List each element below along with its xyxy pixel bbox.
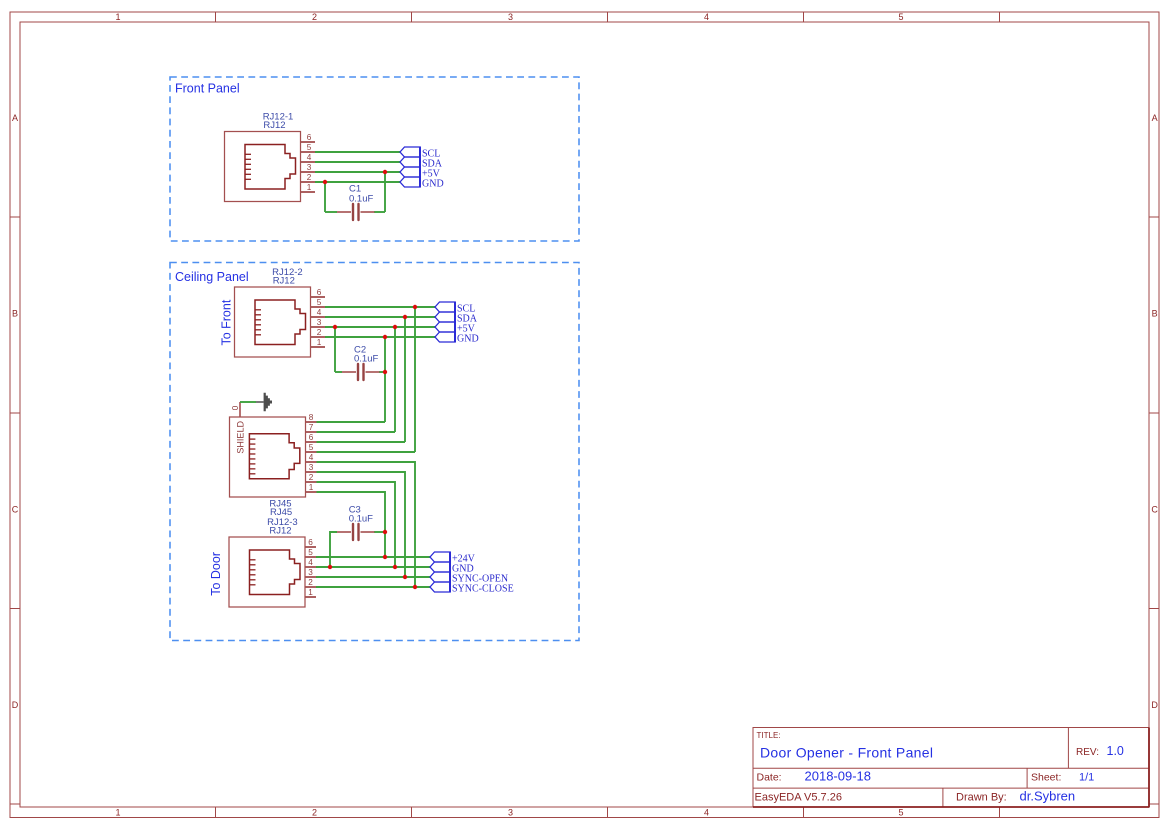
- svg-text:Ceiling Panel: Ceiling Panel: [175, 270, 249, 284]
- wire RJ12-3 pin4 to GND: [316, 566, 430, 568]
- svg-text:1: 1: [115, 12, 120, 22]
- svg-text:GND: GND: [457, 333, 479, 344]
- junction GND lower / C3: [328, 565, 332, 569]
- wire C3 right: [374, 531, 385, 533]
- wire C1 right vertical: [384, 172, 386, 212]
- junction SYNC-OPEN: [403, 575, 407, 579]
- svg-text:0.1uF: 0.1uF: [349, 514, 373, 525]
- svg-text:RJ12: RJ12: [273, 275, 295, 286]
- svg-text:Door Opener - Front Panel: Door Opener - Front Panel: [760, 745, 933, 761]
- capacitor C3 0.1uF: [337, 505, 375, 541]
- svg-text:5: 5: [307, 143, 312, 152]
- svg-text:3: 3: [317, 318, 322, 327]
- wire RJ45 pin8 to GND bus: [317, 421, 386, 423]
- svg-text:0.1uF: 0.1uF: [349, 194, 373, 205]
- wire bus SDA vertical upper: [404, 317, 406, 442]
- net flag GND lower: [430, 562, 474, 575]
- junction C2 right: [383, 370, 387, 374]
- svg-text:3: 3: [309, 463, 314, 472]
- wire RJ12-2 pin2 to GND: [325, 336, 435, 338]
- svg-text:To Door: To Door: [209, 552, 223, 596]
- svg-text:5: 5: [309, 443, 314, 452]
- svg-text:5: 5: [308, 548, 313, 557]
- svg-text:C: C: [1151, 505, 1158, 515]
- svg-text:0: 0: [231, 405, 240, 410]
- svg-text:1: 1: [309, 483, 314, 492]
- svg-text:7: 7: [309, 423, 314, 432]
- svg-text:1: 1: [307, 183, 312, 192]
- connector RJ12-1: [225, 111, 316, 201]
- svg-text:1: 1: [115, 808, 120, 818]
- svg-text:1.0: 1.0: [1107, 744, 1124, 758]
- svg-text:SHIELD: SHIELD: [235, 421, 245, 454]
- svg-text:1: 1: [317, 338, 322, 347]
- svg-text:4: 4: [704, 12, 709, 22]
- net flag GND ceiling: [435, 332, 479, 345]
- svg-text:3: 3: [508, 12, 513, 22]
- wire C1 right horizontal: [374, 211, 385, 213]
- wire RJ45 pin4 to SYNC-CLOSE bus: [317, 462, 416, 587]
- wire RJ12-1 pin4 to SDA: [315, 161, 400, 163]
- junction SCL bus: [413, 305, 417, 309]
- svg-text:TITLE:: TITLE:: [757, 731, 781, 740]
- svg-text:B: B: [1152, 309, 1158, 319]
- wire RJ45 pin2 to GND lower bus: [317, 482, 396, 567]
- net flag SYNC-CLOSE: [430, 582, 514, 595]
- wire RJ45 pin1 to +24V bus: [317, 492, 386, 557]
- wire RJ45 pin5 to SCL bus: [317, 451, 416, 453]
- svg-text:B: B: [12, 309, 18, 319]
- module box Ceiling Panel: [170, 263, 579, 641]
- svg-text:dr.Sybren: dr.Sybren: [1020, 788, 1076, 803]
- net flag +5V: [400, 167, 441, 180]
- svg-text:3: 3: [307, 163, 312, 172]
- wire RJ12-2 pin4 to SDA: [325, 316, 435, 318]
- junction +5V bus: [393, 325, 397, 329]
- connector RJ12-2 To Front: [220, 267, 326, 357]
- net flag GND: [400, 177, 444, 190]
- svg-text:SYNC-CLOSE: SYNC-CLOSE: [452, 583, 514, 594]
- wire RJ12-1 pin2 to GND: [315, 181, 400, 183]
- svg-text:2: 2: [309, 473, 314, 482]
- junction RJ12-1 pin3 / C1: [383, 170, 387, 174]
- junction C3 right: [383, 530, 387, 534]
- svg-text:D: D: [1151, 700, 1158, 710]
- wire bus GND vertical upper: [384, 337, 386, 422]
- svg-text:3: 3: [308, 568, 313, 577]
- connector RJ45 SHIELD: [230, 402, 317, 518]
- svg-text:2: 2: [307, 173, 312, 182]
- svg-text:2: 2: [308, 578, 313, 587]
- junction +24V: [383, 555, 387, 559]
- svg-text:8: 8: [309, 413, 314, 422]
- svg-text:2: 2: [312, 12, 317, 22]
- connector RJ12-3 To Door: [209, 517, 316, 607]
- svg-text:2018-09-18: 2018-09-18: [805, 768, 872, 783]
- capacitor C1 0.1uF: [337, 184, 375, 221]
- svg-text:0.1uF: 0.1uF: [354, 354, 378, 365]
- wire RJ45 pin7 to +5V bus: [317, 431, 396, 433]
- svg-text:A: A: [12, 113, 18, 123]
- module box Front Panel: [170, 77, 579, 241]
- svg-text:A: A: [1152, 113, 1158, 123]
- svg-text:Drawn By:: Drawn By:: [956, 791, 1007, 803]
- svg-text:2: 2: [317, 328, 322, 337]
- wire RJ12-3 pin3 to SYNC-OPEN: [316, 576, 430, 578]
- svg-text:REV:: REV:: [1076, 747, 1099, 758]
- junction GND bus: [383, 335, 387, 339]
- wire C2 right horizontal: [379, 371, 385, 373]
- junction GND lower bus: [393, 565, 397, 569]
- junction SDA bus: [403, 315, 407, 319]
- svg-text:Date:: Date:: [757, 771, 782, 783]
- wire RJ12-3 pin5 to +24V: [316, 556, 430, 558]
- svg-text:To Front: To Front: [220, 299, 234, 345]
- svg-text:GND: GND: [422, 178, 444, 189]
- svg-text:6: 6: [309, 433, 314, 442]
- wire C2 left vertical: [334, 327, 336, 372]
- svg-text:1/1: 1/1: [1079, 771, 1094, 783]
- wire RJ12-3 pin2 to SYNC-CLOSE: [316, 586, 430, 588]
- wire C1 left vertical: [324, 182, 326, 212]
- wire C2 left horizontal: [335, 371, 342, 373]
- wire RJ45 pin6 to SDA bus: [317, 441, 406, 443]
- svg-text:6: 6: [307, 133, 312, 142]
- net flag +24V: [430, 552, 476, 565]
- wire RJ12-2 pin5 to SCL: [325, 306, 435, 308]
- svg-text:EasyEDA V5.7.26: EasyEDA V5.7.26: [755, 791, 842, 803]
- net flag SCL ceiling: [435, 302, 475, 315]
- svg-text:3: 3: [508, 808, 513, 818]
- wire bus SCL vertical upper: [414, 307, 416, 452]
- net flag SDA: [400, 157, 443, 170]
- svg-text:RJ12: RJ12: [263, 120, 285, 131]
- svg-text:4: 4: [317, 308, 322, 317]
- wire bus +5V vertical upper: [394, 327, 396, 432]
- junction SYNC-CLOSE: [413, 585, 417, 589]
- junction RJ12-2 pin3 / C2: [333, 325, 337, 329]
- wire RJ12-1 pin3 to +5V: [315, 171, 400, 173]
- net flag SDA ceiling: [435, 312, 478, 325]
- ground symbol: [256, 393, 272, 412]
- net flag +5V ceiling: [435, 322, 476, 335]
- svg-text:5: 5: [317, 298, 322, 307]
- svg-text:2: 2: [312, 808, 317, 818]
- svg-text:Front Panel: Front Panel: [175, 82, 240, 96]
- svg-text:5: 5: [898, 12, 903, 22]
- net flag SYNC-OPEN: [430, 572, 508, 585]
- svg-text:6: 6: [308, 538, 313, 547]
- svg-text:4: 4: [307, 153, 312, 162]
- svg-text:4: 4: [308, 558, 313, 567]
- junction RJ12-1 pin2 / C1: [323, 180, 327, 184]
- wire C1 left horizontal: [325, 211, 337, 213]
- svg-text:RJ12: RJ12: [269, 526, 291, 537]
- svg-text:4: 4: [309, 453, 314, 462]
- capacitor C2 0.1uF: [342, 345, 380, 381]
- svg-text:D: D: [12, 700, 19, 710]
- wire RJ12-1 pin5 to SCL: [315, 151, 400, 153]
- wire C3 left: [330, 532, 337, 567]
- wire RJ45 pin3 to SYNC-OPEN bus: [317, 472, 406, 577]
- svg-text:C: C: [12, 505, 19, 515]
- svg-text:Sheet:: Sheet:: [1031, 771, 1061, 783]
- wire shield to ground: [240, 401, 256, 403]
- svg-text:6: 6: [317, 288, 322, 297]
- svg-text:1: 1: [308, 588, 313, 597]
- title block: [753, 728, 1150, 808]
- wire RJ12-2 pin3 to +5V: [325, 326, 435, 328]
- svg-text:4: 4: [704, 808, 709, 818]
- svg-text:5: 5: [898, 808, 903, 818]
- net flag SCL: [400, 147, 440, 160]
